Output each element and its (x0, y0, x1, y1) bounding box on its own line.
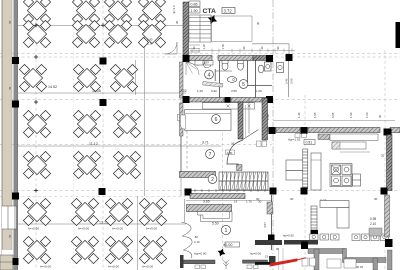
table cluster T16 (73, 151, 100, 178)
room6 west wall (180, 103, 184, 136)
south wall gray strip 3 right edge (388, 250, 393, 270)
column K13 (269, 127, 276, 134)
svg-text:30: 30 (175, 20, 179, 24)
east duct wall (262, 98, 268, 140)
table cluster T19 (71, 198, 98, 225)
grid axis vertical B x=103 (102, 0, 104, 270)
svg-text:30: 30 (276, 247, 280, 251)
column K16 (269, 187, 271, 189)
axis tick X4 (101, 23, 105, 27)
svg-text:70: 70 (8, 20, 12, 24)
svg-text:1.48: 1.48 (266, 114, 270, 120)
svg-text:1.50: 1.50 (221, 44, 225, 50)
svg-text:30: 30 (378, 114, 382, 118)
room tag 2 (208, 175, 217, 184)
bathroom partition y=85.5 (240, 85, 272, 87)
kitchen north wall y=127.5 (276, 128, 300, 133)
svg-text:70: 70 (8, 234, 12, 238)
bath shelf line y=71 (215, 70, 232, 72)
lobby east wall hatch block (267, 202, 273, 214)
reception desk steps (198, 212, 230, 219)
svg-text:CTA: CTA (203, 8, 217, 15)
stair level box 1.90 (189, 8, 200, 14)
table cluster T23 (71, 236, 98, 263)
left wall column K2 (12, 101, 19, 108)
svg-text:3.71: 3.71 (202, 141, 209, 145)
left wall window opening 1 (2, 206, 16, 229)
cooking block (330, 164, 361, 187)
north arrow top (206, 13, 219, 26)
corridor wall y=97.5 (188, 98, 224, 103)
grid axis vertical E x=305 (304, 95, 306, 270)
door leaf diagonal (243, 130, 259, 140)
east wall segment (385, 195, 390, 237)
svg-text:3.65: 3.65 (203, 199, 210, 203)
south wall gray strip 2 (345, 258, 386, 263)
svg-text:70: 70 (8, 86, 12, 90)
left wall column K3 (12, 193, 19, 200)
corner basin (203, 60, 213, 68)
room tag 7 (206, 150, 215, 159)
corridor line x=249 (248, 98, 250, 134)
bench south 1 (183, 260, 215, 264)
south wall stub right (269, 256, 276, 264)
table cluster T17 (113, 151, 140, 178)
left exterior wall core (gray) (14, 0, 18, 270)
svg-text:hp=0.92: hp=0.92 (283, 234, 294, 238)
wc pan 2 (238, 62, 244, 70)
top right facade bar (396, 22, 400, 48)
counter second row (332, 142, 366, 149)
column K18 (381, 188, 388, 195)
svg-text:1.70: 1.70 (246, 199, 252, 203)
door swing spokes (186, 62, 199, 74)
column K19 (385, 239, 393, 247)
svg-text:4.57: 4.57 (263, 222, 267, 228)
bench south 2 (243, 260, 268, 263)
svg-text:Agr=1.92: Agr=1.92 (288, 138, 301, 142)
room6 opening dashed boundary (186, 131, 188, 171)
table cluster T22 (23, 236, 50, 263)
stair south wall strip (190, 194, 245, 199)
svg-text:30: 30 (260, 46, 264, 50)
roof edge line (252, 44, 289, 57)
door size box 1.80 (226, 150, 235, 155)
bathroom entry door arc (186, 62, 199, 75)
room tag 5 (239, 80, 248, 89)
table cluster T2 (72, 0, 99, 24)
dining short divider x=135.5 (135, 60, 137, 95)
svg-text:1.90: 1.90 (349, 112, 353, 118)
grid axis horizontal 1b y=57 (0, 56, 400, 58)
svg-text:0.81: 0.81 (306, 141, 313, 145)
wavy acoustic wall (182, 222, 193, 258)
small block room7 (237, 165, 243, 171)
column K8 (183, 96, 190, 103)
grid axis vertical D x=273 (dash-dot) (272, 0, 274, 270)
svg-text:30: 30 (192, 46, 196, 50)
duct base boxes (257, 141, 262, 147)
CTA room outline (212, 16, 253, 42)
svg-text:h=+0.00: h=+0.00 (40, 265, 51, 269)
column K5 (183, 55, 190, 62)
svg-text:h=+0.00: h=+0.00 (78, 227, 89, 231)
small fixtures left of wall (295, 134, 300, 138)
room tag 6 (212, 115, 221, 124)
svg-text:2.10: 2.10 (194, 240, 200, 244)
svg-text:Agr=0.00: Agr=0.00 (194, 252, 207, 256)
svg-text:1.20: 1.20 (202, 44, 206, 50)
column P5 (99, 188, 106, 195)
column K15 (384, 129, 392, 136)
svg-text:1.06: 1.06 (256, 89, 262, 93)
urinal screens (195, 61, 203, 66)
grid axis horizontal 1 y=53.5 (0, 53, 400, 55)
room tag 1 (221, 225, 230, 234)
svg-text:30: 30 (256, 197, 260, 201)
dining door arc at stair wall (165, 42, 177, 54)
svg-text:0.86: 0.86 (191, 3, 198, 7)
table cluster T18 (23, 198, 50, 225)
counter under wall hatched (318, 134, 330, 140)
wall fixture box (178, 115, 183, 121)
column K9 (266, 96, 273, 103)
left wall opening 2 (2, 250, 13, 255)
south wall dark segment 1 (255, 240, 282, 245)
svg-text:30: 30 (256, 21, 260, 25)
table cluster T20 (105, 198, 132, 225)
svg-text:36 36: 36 36 (356, 265, 363, 269)
svg-text:1.95: 1.95 (313, 112, 317, 118)
grid axis horizontal 4b y=196.3 (0, 195, 186, 197)
table cluster T9 (19, 64, 46, 91)
axis tick X1 (34, 100, 38, 104)
svg-text:14.52: 14.52 (48, 85, 57, 89)
svg-text:h=+0.00: h=+0.00 (112, 227, 123, 231)
south wall gray jog (343, 249, 347, 263)
svg-text:1.97: 1.97 (204, 61, 210, 65)
svg-text:11.12: 11.12 (89, 142, 98, 146)
curved wall room7 (227, 140, 243, 167)
svg-text:7: 7 (209, 152, 212, 158)
svg-text:1.40: 1.40 (297, 112, 301, 118)
svg-text:90: 90 (242, 46, 246, 50)
svg-text:30: 30 (290, 197, 294, 201)
svg-text:1: 1 (225, 228, 228, 234)
svg-text:hp=1.0: hp=1.0 (172, 5, 176, 14)
svg-text:6: 6 (215, 117, 218, 123)
svg-text:15: 15 (265, 255, 269, 259)
dining dimension line y=224 (18, 223, 186, 225)
north arrow lobby (216, 247, 227, 258)
svg-text:3.00: 3.00 (290, 78, 294, 84)
table cluster T11 (110, 64, 137, 91)
svg-text:90: 90 (276, 46, 280, 50)
kitchen island L top (320, 201, 349, 208)
svg-text:20: 20 (381, 154, 385, 158)
lobby west line (184, 199, 186, 222)
column lower shaft (311, 230, 319, 239)
svg-text:5: 5 (242, 82, 245, 88)
dimension line y=50.5 with ticks (190, 49, 295, 53)
stair lower landing lines (189, 45, 200, 52)
table cluster T15 (23, 151, 50, 178)
svg-text:0.95: 0.95 (331, 112, 335, 118)
svg-text:.80: .80 (194, 235, 198, 239)
svg-text:hp=0.00: hp=0.00 (250, 252, 261, 256)
svg-text:3.56: 3.56 (231, 89, 237, 93)
stair dim line y=190.5 (186, 189, 272, 192)
plant symbol (223, 260, 230, 270)
south wall stub left (180, 255, 184, 268)
table cluster T25 (139, 236, 166, 263)
svg-text:h=+0.00: h=+0.00 (28, 227, 39, 231)
stair upper flight treads (189, 15, 211, 42)
stair south wall hatched (180, 172, 216, 178)
svg-text:1.90: 1.90 (191, 9, 198, 13)
svg-text:2: 2 (211, 177, 214, 183)
bathroom north wall (188, 56, 212, 61)
kitchen east wall upper (387, 135, 393, 191)
grid axis vertical A x=36 (35, 0, 37, 270)
table cluster T14 (113, 110, 140, 137)
level box +-0.00 (225, 242, 240, 247)
red revision line (270, 258, 298, 266)
south wall dark segment 2 (284, 240, 318, 245)
equipment row 1 (310, 234, 389, 241)
table cluster T6 (72, 20, 99, 47)
svg-text:5.50: 5.50 (212, 222, 219, 226)
table cluster T10 (73, 64, 100, 91)
washbasin 1 (227, 77, 236, 83)
column P2 (100, 99, 107, 106)
column K10 (185, 189, 192, 196)
table cluster T4 (138, 0, 165, 24)
svg-text:2.02: 2.02 (180, 89, 187, 93)
left wall column K4 (13, 258, 19, 265)
door post mid (225, 97, 231, 103)
left wall column K1 (12, 57, 19, 64)
axis tick X3 (34, 55, 38, 59)
svg-text:1.20: 1.20 (197, 89, 203, 93)
svg-text:h=+0.00: h=+0.00 (108, 265, 119, 269)
svg-text:2.10: 2.10 (147, 42, 153, 46)
dining dimension line y=24 (18, 24, 186, 26)
wall x=288.5 down from roof corner (288, 61, 290, 97)
bathroom partition x=240 (247, 61, 249, 84)
svg-text:h=+0.00: h=+0.00 (142, 265, 153, 269)
wc pan 3 (258, 65, 264, 73)
dining east boundary x=181 (180, 62, 182, 196)
dining divider line x=137.7 (137, 196, 139, 270)
svg-text:4: 4 (208, 72, 211, 78)
column K12 (268, 235, 275, 242)
south vertical wall 2 (373, 258, 378, 270)
bathroom west wall (180, 62, 184, 98)
shelf X marks (227, 105, 251, 108)
stair hatch overlay (220, 172, 267, 190)
shaft wall mid kitchen (rung ladder) (303, 149, 308, 189)
tall cabinet (311, 153, 321, 190)
lobby east wall (271, 195, 273, 250)
table cluster T3 (104, 0, 131, 24)
svg-text:2.10: 2.10 (370, 222, 376, 226)
bathroom partition x=255.5 (255, 61, 257, 99)
grid axis minor x=73.5 (dotted) (73, 0, 75, 270)
table cluster T8 (138, 20, 165, 47)
svg-text:3.72: 3.72 (224, 9, 233, 14)
box 0.81 (304, 140, 315, 145)
reception desk hatched (187, 205, 232, 212)
room6 counter (185, 110, 231, 131)
table cluster T7 (104, 20, 131, 47)
axis tick X5 (34, 23, 38, 27)
grid axis horizontal 4 y=190.5 (0, 190, 400, 192)
column K6 (266, 55, 273, 62)
wc pan 1 (222, 62, 228, 70)
corridor aux line x=245.5 (245, 105, 247, 137)
sink unit far right room (277, 63, 284, 73)
grid axis vertical F x=385 (384, 50, 386, 270)
stair wall hatched x=183 (183, 2, 189, 55)
bath bench (203, 82, 223, 88)
svg-text:15: 15 (234, 199, 238, 203)
south vertical wall 1 (314, 249, 319, 270)
table cluster T21 (139, 198, 166, 225)
axis tick X2 (34, 189, 38, 193)
svg-text:30: 30 (374, 197, 378, 201)
gray appliance right (369, 228, 382, 236)
column K17 (301, 188, 308, 195)
table cluster T5 (23, 20, 50, 47)
counter under wall outline (330, 134, 378, 141)
table cluster T13 (73, 110, 100, 137)
dining divider line x=144.5 (144, 0, 146, 196)
duct shaft wall (238, 102, 243, 139)
red tail (298, 258, 307, 260)
table cluster T1 (23, 0, 50, 24)
grid axis horizontal 3 y=144.5 (0, 144, 272, 146)
counter shelf line (340, 151, 370, 153)
sink unit right (265, 62, 272, 71)
basement fixtures (302, 258, 308, 266)
right wing dim line y=120 (273, 120, 395, 122)
table cluster T24 (105, 236, 132, 263)
south wall gray strip 1 (308, 249, 345, 254)
svg-text:0.92: 0.92 (211, 89, 217, 93)
lobby dim line y=199 (186, 200, 272, 202)
room6 corner fixture (180, 115, 185, 129)
svg-text:h=+0.00: h=+0.00 (146, 227, 157, 231)
left wall bottom blocks (0, 255, 13, 270)
room tag 4 (205, 70, 214, 79)
column P1 (100, 58, 107, 65)
svg-text:0.46: 0.46 (285, 78, 289, 84)
grid axis horizontal 2 y=99.5 (0, 99, 400, 101)
left exterior wall insulation (tan) (2, 0, 12, 270)
bath partition x=215 (214, 69, 216, 81)
dining dimension line y=93 (18, 92, 186, 94)
svg-text:±0.00: ±0.00 (223, 243, 232, 247)
door frame lines bottom (278, 248, 280, 270)
dining dimension line y=146 (18, 145, 221, 147)
stair level box 0.86 (189, 1, 200, 7)
bench tick boxes (195, 265, 258, 269)
south wall black segment left of red (255, 262, 271, 265)
table cluster T12 (23, 110, 50, 137)
column K11 (270, 188, 277, 195)
grid axis vertical C x=222.5 (222, 100, 224, 262)
room7 west wall line (180, 136, 182, 172)
south wall column KS1 (301, 242, 308, 250)
bathroom partition x=219.5 (219, 61, 221, 99)
west shaft lower (rung ladder) (311, 206, 317, 230)
svg-text:0.98: 0.98 (370, 217, 376, 221)
svg-text:1.00: 1.00 (365, 112, 369, 118)
CTA value box 3.72 (222, 8, 235, 14)
kitchen island L leg (337, 208, 349, 229)
room6 shelf under wall (203, 103, 255, 109)
column K7 (286, 54, 293, 61)
main stair flight (219, 172, 268, 190)
column K14 (301, 127, 308, 134)
kitchen tables room west (286, 160, 304, 171)
